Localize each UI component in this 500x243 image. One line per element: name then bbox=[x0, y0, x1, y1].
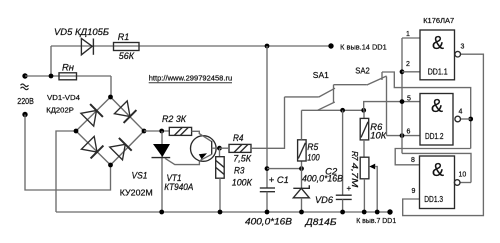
node bridge right bbox=[142, 129, 147, 134]
svg-text:VD6: VD6 bbox=[315, 195, 333, 205]
node junction to DD1 pin14 column bbox=[265, 44, 270, 49]
svg-text:К176ЛА7: К176ЛА7 bbox=[423, 16, 454, 25]
wire pin4 bbox=[460, 118, 470, 120]
resistor R2 bbox=[169, 127, 191, 135]
svg-text:&: & bbox=[432, 33, 444, 53]
wire C1 node to R5 bbox=[267, 168, 302, 170]
svg-text:7,5К: 7,5К bbox=[233, 153, 251, 163]
wire R6 node to pin5 bbox=[364, 102, 420, 111]
node terminal К выв.7 DD1 bbox=[387, 209, 392, 214]
svg-text:SA2: SA2 bbox=[355, 66, 370, 76]
IC DD1.2 bbox=[420, 94, 453, 146]
svg-text:3: 3 bbox=[461, 44, 465, 51]
wire SA1 node bus y=110.3 bbox=[302, 109, 364, 111]
svg-text:R2 3К: R2 3К bbox=[162, 114, 187, 124]
wire top branch y=46 bbox=[51, 45, 331, 47]
node VS1 anode junction bbox=[159, 129, 164, 134]
wire bottom input down-right to bridge bottom bbox=[25, 115, 111, 191]
resistor R3 bbox=[219, 148, 221, 157]
wire input column x=402 bbox=[401, 38, 403, 153]
svg-text:КТ940А: КТ940А bbox=[164, 182, 193, 192]
node R5 bottom junction bbox=[299, 166, 304, 171]
IC DD1.3 bbox=[420, 156, 455, 209]
switch SA2 contact tick bbox=[381, 72, 383, 80]
svg-text:6: 6 bbox=[407, 129, 411, 136]
node bridge bottom bbox=[108, 163, 113, 168]
wire VS1 gate to VT1 emitter bbox=[165, 158, 199, 164]
wire pin10 bbox=[460, 182, 471, 184]
node terminal К выв.14 DD1 bbox=[328, 43, 333, 48]
wire bridge arm top-right bbox=[111, 97, 145, 131]
wire VS1 vertical anode-cathode to rail bbox=[161, 131, 163, 212]
svg-text:400,0*16В: 400,0*16В bbox=[302, 174, 343, 184]
wire R3 bottom bbox=[219, 178, 221, 212]
svg-text:100К: 100К bbox=[232, 178, 253, 188]
switch SA1 contact column bbox=[333, 85, 335, 103]
svg-text:8: 8 bbox=[411, 157, 415, 164]
node input terminal bottom 220V bbox=[22, 112, 27, 117]
svg-text:К выв.7 DD1: К выв.7 DD1 bbox=[356, 216, 396, 225]
wire bridge left to ground rail bbox=[56, 131, 76, 212]
zener VD6 bbox=[301, 169, 303, 189]
node R7 bottom rail bbox=[362, 210, 367, 215]
wire bridge arm bottom-right bbox=[111, 131, 145, 165]
wire SA2 lever to pin6 bbox=[386, 77, 388, 136]
node pin4 junction bbox=[468, 117, 473, 122]
diode VD1 upper-left arm bbox=[81, 104, 103, 126]
diode VD3 lower-left arm bbox=[81, 136, 103, 158]
resistor R4 bbox=[229, 144, 251, 152]
svg-text:Rн: Rн bbox=[62, 63, 74, 73]
svg-text:100: 100 bbox=[307, 152, 319, 162]
switch SA1 lever upper bbox=[319, 88, 335, 97]
switch SA2 lever bbox=[367, 76, 387, 85]
node base junction bbox=[217, 146, 222, 151]
svg-text:Д814Б: Д814Б bbox=[304, 217, 336, 227]
thyristor VS1 bbox=[152, 144, 171, 158]
svg-text:2: 2 bbox=[406, 61, 410, 68]
svg-text:5: 5 bbox=[407, 96, 411, 103]
svg-text:КУ202М: КУ202М bbox=[120, 188, 153, 198]
svg-text:VS1: VS1 bbox=[132, 171, 148, 181]
svg-text:SA1: SA1 bbox=[313, 70, 329, 80]
resistor R5 bbox=[301, 161, 303, 169]
svg-text:http://www.299792458.ru: http://www.299792458.ru bbox=[149, 74, 233, 83]
node bridge left bbox=[74, 129, 79, 134]
node pin2 bbox=[400, 69, 405, 74]
svg-text:220В: 220В bbox=[17, 97, 34, 106]
wire pin1 bbox=[402, 37, 420, 39]
wire VT1 collector from R2 bbox=[192, 131, 212, 141]
diode VD2 upper-right arm bbox=[114, 101, 136, 123]
node C1 top junction bbox=[265, 166, 270, 171]
node junction Rн/VD5 bbox=[49, 74, 54, 79]
node pin5 bbox=[400, 99, 405, 104]
wire pin2 bbox=[402, 71, 420, 73]
wire SA2 contact to pin4 column bbox=[382, 72, 471, 149]
svg-text:4: 4 bbox=[459, 109, 463, 116]
wire pin6 row bbox=[387, 135, 421, 137]
node C2 rail bbox=[340, 210, 345, 215]
wire DD1.3 out feedback loop bbox=[402, 153, 471, 182]
transistor VT1 bbox=[191, 136, 217, 162]
svg-text:КД202Р: КД202Р bbox=[46, 106, 74, 115]
wire SA1 to SA2 bbox=[334, 84, 367, 86]
switch SA1 lever lower bbox=[318, 102, 335, 110]
diode VD4 lower-right arm bbox=[110, 138, 132, 160]
svg-text:1: 1 bbox=[406, 31, 410, 38]
diode VD5 bbox=[81, 39, 93, 55]
svg-text:56К: 56К bbox=[119, 51, 135, 61]
AC symbol bbox=[21, 84, 29, 90]
svg-text:&: & bbox=[432, 160, 444, 180]
wire bridge right to R2/VS1 bbox=[144, 130, 169, 132]
switch SA1 pole wire bbox=[285, 96, 319, 98]
wire top input to bridge bbox=[25, 75, 111, 77]
wire DD1.2 out to DD1.3 pin8 bbox=[395, 149, 471, 165]
wire VT1 base lead bbox=[212, 147, 220, 149]
capacitor C1 bbox=[260, 187, 275, 189]
wire R4 left bbox=[220, 147, 230, 149]
R7 wiper arrow bbox=[369, 164, 375, 170]
wire bridge arm left-bottom bbox=[76, 131, 111, 165]
resistor R1 bbox=[114, 43, 140, 51]
node C2 top bbox=[340, 108, 345, 113]
node VD6 rail bbox=[299, 210, 304, 215]
node R6 top bbox=[361, 108, 366, 113]
svg-text:R7: R7 bbox=[350, 151, 359, 161]
wire R4 right to SA1 riser bbox=[251, 97, 285, 148]
svg-text:DD1.2: DD1.2 bbox=[425, 132, 444, 141]
capacitor C2 bbox=[342, 110, 344, 195]
wire bridge top vertical bbox=[110, 76, 112, 97]
svg-text:+ C1: + C1 bbox=[269, 175, 289, 185]
svg-text:VD5 КД105Б: VD5 КД105Б bbox=[54, 27, 109, 37]
svg-text:R4: R4 bbox=[233, 133, 244, 143]
wire DD1.1 out to pin9 loop bbox=[403, 54, 484, 215]
svg-text:4,7М: 4,7М bbox=[350, 163, 360, 189]
svg-text:&: & bbox=[431, 96, 443, 116]
svg-text:К выв.14 DD1: К выв.14 DD1 bbox=[340, 42, 387, 51]
wire R5 top bbox=[301, 110, 303, 140]
svg-text:9: 9 bbox=[412, 188, 416, 195]
potentiometer R7 bbox=[363, 140, 365, 157]
node VS1 on rail bbox=[159, 210, 164, 215]
wire VD5 branch vertical bbox=[50, 46, 52, 76]
svg-text:10К: 10К bbox=[370, 131, 387, 141]
resistor Rн bbox=[59, 73, 77, 80]
svg-text:400,0*16В: 400,0*16В bbox=[245, 217, 292, 227]
resistor R6 bbox=[363, 110, 365, 119]
svg-text:R5: R5 bbox=[307, 142, 319, 152]
node C1 rail bbox=[265, 210, 270, 215]
svg-text:VD1-VD4: VD1-VD4 bbox=[47, 93, 80, 102]
node bridge top bbox=[108, 95, 113, 100]
VT1 base bar bbox=[211, 141, 213, 155]
svg-text:R3: R3 bbox=[234, 166, 245, 176]
wire main vertical x=267 bbox=[266, 46, 268, 188]
node input terminal top 220V bbox=[22, 73, 27, 78]
node R3 rail bbox=[218, 210, 223, 215]
svg-text:10: 10 bbox=[459, 172, 467, 179]
wire ground rail bbox=[56, 211, 390, 213]
IC DD1.1 bbox=[420, 30, 455, 80]
svg-text:DD1.3: DD1.3 bbox=[424, 195, 443, 204]
wire bridge arm left-top bbox=[76, 97, 111, 131]
node pin6 bbox=[400, 133, 405, 138]
svg-text:R1: R1 bbox=[118, 32, 130, 42]
svg-text:DD1.1: DD1.1 bbox=[428, 67, 448, 76]
node R7 wiper rail bbox=[375, 210, 380, 215]
VT1 emitter with arrow bbox=[199, 154, 211, 161]
